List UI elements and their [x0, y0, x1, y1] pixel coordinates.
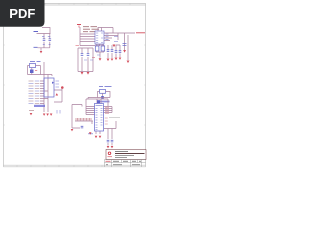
svg-text:PDF: PDF: [9, 6, 35, 21]
